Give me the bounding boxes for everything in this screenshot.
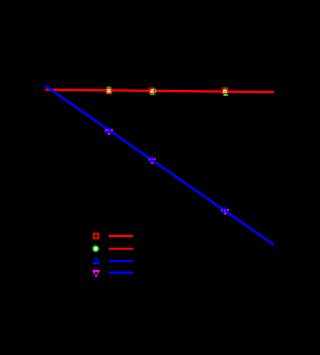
red open square pt2 xyxy=(149,88,154,93)
legend red line 2 xyxy=(109,248,133,250)
magenta peek pt1 right xyxy=(111,129,113,131)
green arc hint pt3 top xyxy=(223,89,227,90)
magenta peek pt2 left xyxy=(149,158,151,160)
legend blue triangle hole xyxy=(95,260,97,262)
blue up-triangle pt3 (filled) xyxy=(222,207,228,213)
legend blue up-triangle (filled, small hole) xyxy=(92,256,100,264)
magenta center dot pt3 xyxy=(224,210,226,212)
legend green circle xyxy=(93,246,98,251)
green arc hint pt1 bottom xyxy=(107,92,111,93)
green errorbar cap pt2 right xyxy=(155,89,156,93)
legend blue line 1 xyxy=(109,260,133,262)
red open square pt1 xyxy=(106,88,112,94)
magenta center dot pt2 xyxy=(151,159,153,161)
green circle pt1 (white face) xyxy=(106,88,111,93)
magenta apex wedge pt1 xyxy=(107,133,111,135)
magenta peek pt3 right xyxy=(227,209,229,211)
legend blue line 2 xyxy=(109,271,133,273)
green arc hint pt2 bottom xyxy=(150,94,154,95)
legend red line 1 xyxy=(109,235,133,237)
blue up-triangle pt2 (filled) xyxy=(149,156,155,162)
magenta apex wedge pt2 xyxy=(150,162,154,165)
magenta apex wedge pt3 xyxy=(223,213,227,216)
legend magenta triangle hole xyxy=(95,272,98,275)
magenta peek pt3 left xyxy=(221,209,223,211)
magenta peek pt1 left xyxy=(105,129,107,131)
magenta peek pt2 right xyxy=(154,158,156,160)
red open square pt3 xyxy=(222,88,228,94)
blue up-triangle pt1 (filled) xyxy=(106,127,112,133)
pink band pt2 xyxy=(150,90,154,92)
legend magenta down-triangle (filled, small hole) xyxy=(92,270,100,278)
green errorbar cap pt1 top xyxy=(107,87,112,88)
pink band pt1 xyxy=(107,90,112,92)
red fit line xyxy=(45,90,274,93)
pink band pt3 xyxy=(223,91,227,93)
green circle pt2 (white face) xyxy=(150,89,155,94)
blue fit line xyxy=(45,86,275,246)
magenta center dot pt1 xyxy=(108,130,110,132)
green errorbar cap pt3 bottom xyxy=(224,94,228,96)
legend red open square xyxy=(94,234,99,239)
green circle pt3 (white face) xyxy=(222,89,227,94)
